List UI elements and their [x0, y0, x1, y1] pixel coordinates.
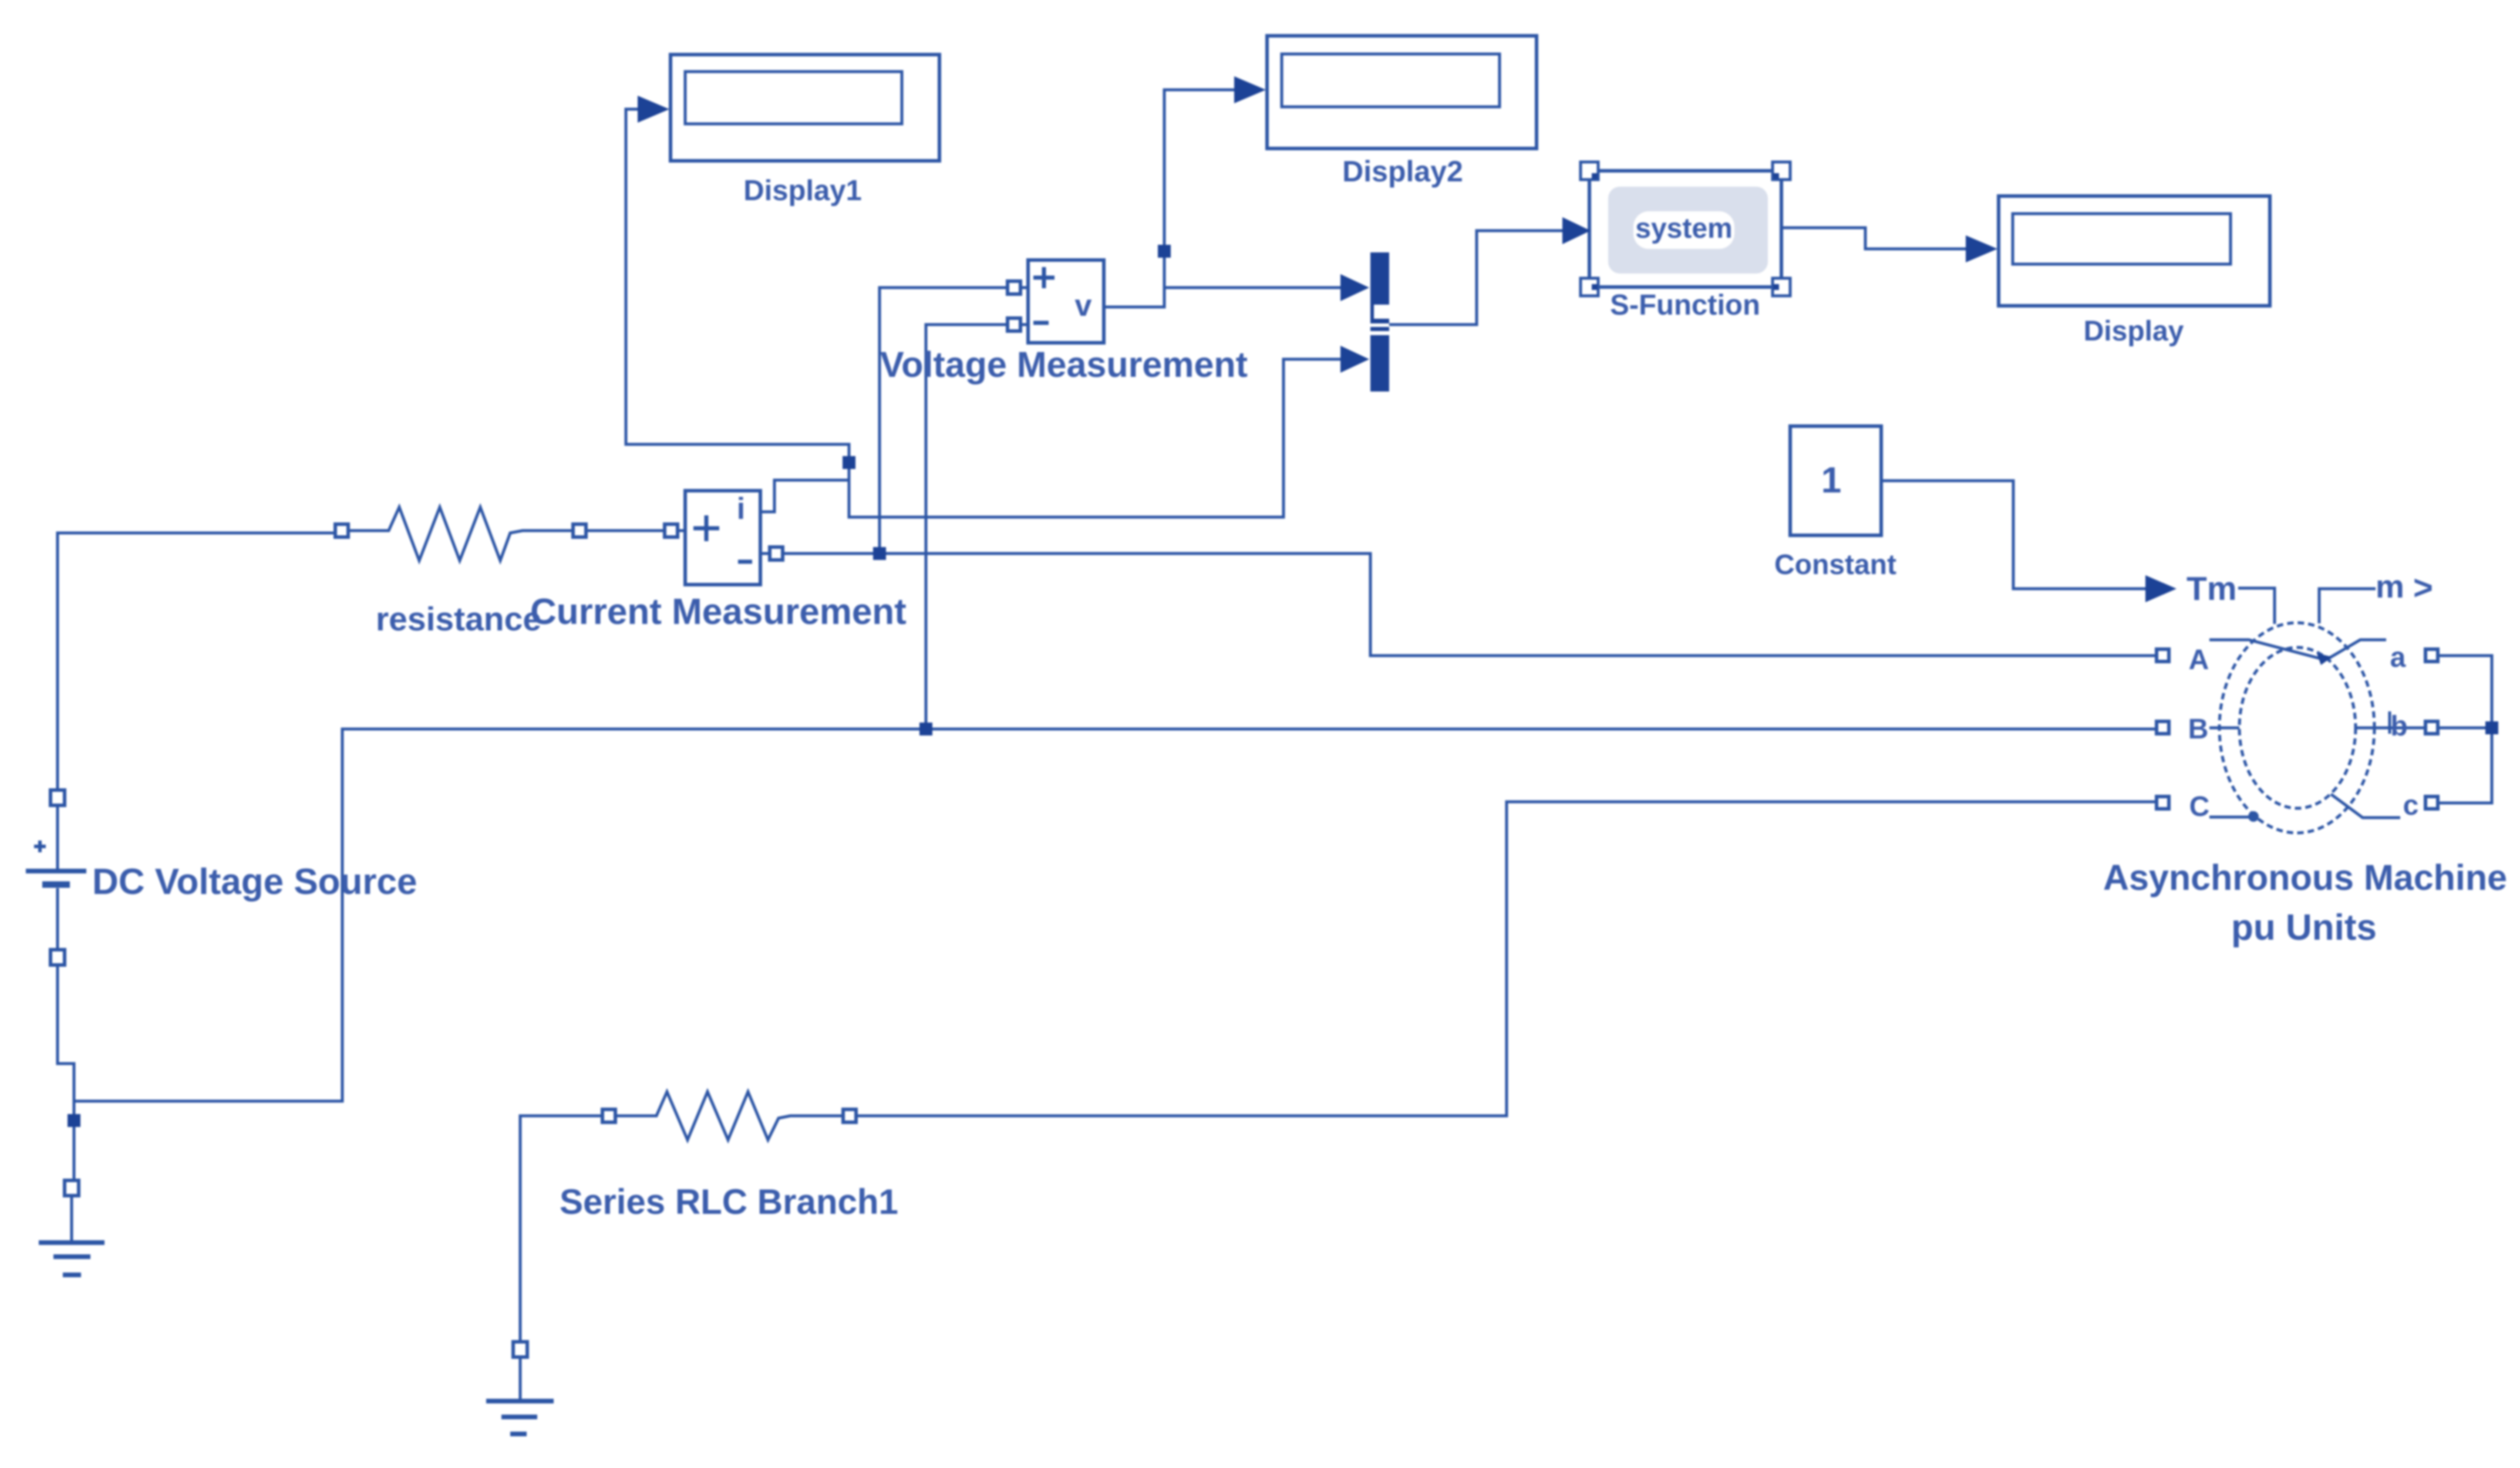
svg-text:C: C	[2189, 791, 2210, 822]
svg-text:v: v	[1075, 289, 1092, 323]
svg-text:Voltage Measurement: Voltage Measurement	[880, 345, 1248, 384]
svg-text:>: >	[2413, 569, 2433, 607]
svg-text:B: B	[2188, 714, 2209, 745]
svg-text:Current Measurement: Current Measurement	[530, 592, 907, 632]
svg-text:Display1: Display1	[743, 175, 862, 207]
svg-text:1: 1	[1821, 460, 1841, 501]
svg-text:Display2: Display2	[1342, 155, 1463, 188]
svg-text:S-Function: S-Function	[1610, 289, 1760, 321]
svg-text:Constant: Constant	[1774, 549, 1896, 581]
svg-text:system: system	[1635, 213, 1732, 244]
svg-text:Series RLC Branch1: Series RLC Branch1	[560, 1182, 898, 1221]
svg-text:DC Voltage Source: DC Voltage Source	[92, 862, 417, 902]
svg-text:i: i	[737, 492, 745, 526]
svg-text:Tm: Tm	[2187, 570, 2237, 608]
svg-text:c: c	[2403, 790, 2419, 821]
svg-text:Display: Display	[2084, 316, 2184, 347]
svg-text:m: m	[2376, 568, 2404, 605]
svg-text:b: b	[2390, 711, 2407, 742]
svg-text:A: A	[2189, 644, 2209, 676]
svg-text:a: a	[2390, 642, 2406, 673]
svg-text:pu Units: pu Units	[2231, 907, 2377, 948]
svg-text:Asynchronous Machine: Asynchronous Machine	[2103, 858, 2507, 897]
svg-text:resistance: resistance	[376, 600, 541, 638]
